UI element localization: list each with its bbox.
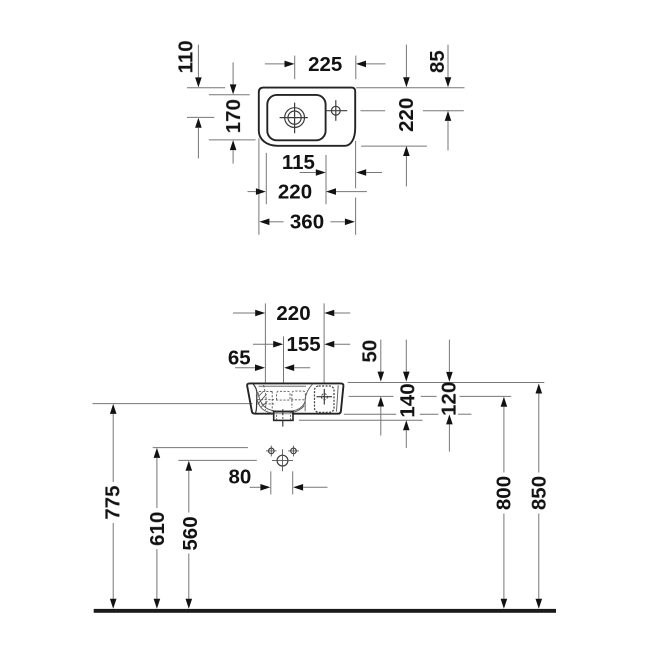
drain crosshair (plan view) bbox=[280, 103, 308, 134]
svg-text:80: 80 bbox=[228, 466, 251, 489]
left fixing hole circle bbox=[269, 448, 275, 454]
hatched cut section box at left rim (elevation) bbox=[257, 391, 274, 411]
extension line: right fixing hole vertical, below bbox=[292, 471, 294, 494]
svg-text:360: 360 bbox=[290, 210, 324, 233]
extension line: top edge level, right of basin bbox=[356, 87, 464, 89]
drain inner circle (plan view) bbox=[288, 111, 301, 124]
bottom edge gap at drain outlet bbox=[275, 413, 293, 415]
svg-text:560: 560 bbox=[179, 516, 202, 550]
dimension 85 (top edge to tap hole centre), vertical at right bbox=[426, 45, 451, 151]
dimension 225 (drain centre to right edge), horizontal at top bbox=[265, 53, 386, 76]
bowl outer curve (elevation) bbox=[256, 395, 304, 413]
level line: tap deck centre (800/50), to the right bbox=[349, 395, 512, 397]
drain pipe crosshair bbox=[272, 449, 293, 471]
tap hole circle (plan view) bbox=[331, 106, 340, 115]
svg-text:170: 170 bbox=[222, 99, 245, 133]
level line: basin top edge (850), to the right bbox=[348, 382, 545, 384]
svg-text:220: 220 bbox=[276, 302, 310, 325]
extension line: 155 left reference, above elevation bbox=[283, 336, 285, 383]
tap hole crosshair (elevation) bbox=[317, 389, 333, 405]
dimension 155 (bowl reference), horizontal above elevation bbox=[253, 333, 350, 356]
dimension 50 (top edge to tap centre), vertical bbox=[358, 340, 384, 436]
svg-text:140: 140 bbox=[396, 383, 419, 417]
hatch diagonal lines (elevation section) bbox=[258, 392, 268, 407]
dimension 560 (floor to drain pipe), vertical bbox=[179, 461, 202, 609]
basin outer outline (plan view) bbox=[259, 88, 355, 146]
svg-text:775: 775 bbox=[101, 485, 124, 519]
inner bowl outline (plan view) bbox=[267, 95, 325, 140]
left rim inner profile curve (elevation) bbox=[253, 384, 257, 413]
drain outlet box (elevation) bbox=[274, 411, 293, 420]
dimension 610 (floor to fixing holes), vertical bbox=[146, 448, 169, 609]
dimension 360 (basin width), horizontal below plan bbox=[259, 210, 355, 233]
dimension 170 (inner bowl depth), vertical at left bbox=[222, 62, 245, 163]
svg-text:85: 85 bbox=[426, 50, 449, 73]
dimension 80 (fixing hole spacing), horizontal bbox=[228, 466, 327, 491]
extension line: left fixing hole vertical, below bbox=[270, 471, 272, 494]
dimension 850 (floor to basin top edge), vertical bbox=[528, 384, 551, 609]
bowl inner curve (elevation) bbox=[258, 392, 305, 411]
svg-text:120: 120 bbox=[438, 382, 461, 416]
hidden bowl left wall dashed line (elevation) bbox=[264, 385, 267, 410]
right fixing hole crosshair bbox=[288, 446, 299, 457]
extension line: tap hole centre level, right of basin bbox=[361, 110, 464, 112]
dimension 220 (inner bowl width), horizontal above elevation bbox=[233, 302, 350, 325]
extension line: inner bowl left vertical, below basin bbox=[265, 153, 267, 204]
level line: basin bottom edge (120), to the right bbox=[344, 413, 472, 415]
svg-text:610: 610 bbox=[146, 512, 169, 546]
deck front edge curve (elevation) bbox=[305, 384, 313, 411]
left fixing hole crosshair bbox=[266, 446, 277, 457]
svg-text:110: 110 bbox=[174, 40, 197, 73]
right inner slant line (elevation) bbox=[337, 385, 339, 411]
floor line bbox=[94, 609, 556, 613]
extension line: top edge level, left of basin bbox=[187, 87, 225, 89]
svg-text:225: 225 bbox=[308, 53, 342, 76]
dimension 65, horizontal above elevation left bbox=[228, 347, 310, 372]
svg-text:220: 220 bbox=[395, 98, 418, 132]
rectangle B side continuation dashes (elevation) bbox=[291, 400, 293, 408]
svg-text:800: 800 bbox=[493, 476, 516, 510]
dimension 120 (top edge to basin bottom), vertical bbox=[438, 340, 461, 452]
dimension 140 (top edge to drain outlet bottom), vertical bbox=[396, 340, 419, 448]
level line: drain pipe height (560), to the left bbox=[178, 459, 256, 461]
svg-text:220: 220 bbox=[278, 180, 312, 203]
drain outlet inner walls (elevation) bbox=[277, 412, 291, 420]
right fixing hole circle bbox=[291, 448, 297, 454]
svg-text:115: 115 bbox=[282, 151, 315, 174]
level line: 775 height (basin lower edge), to the left bbox=[93, 403, 253, 405]
drain outer circle (plan view) bbox=[285, 108, 305, 128]
dimension 800 (floor to tap deck), vertical bbox=[493, 397, 516, 609]
extension line: inner bowl right vertical, below basin bbox=[325, 155, 327, 204]
extension line: inner bowl right wall, above elevation bbox=[323, 303, 325, 383]
level line: fixing holes height (610), to the left bbox=[153, 447, 248, 449]
drain pipe circle bbox=[277, 455, 288, 466]
extension line: drain centre vertical, above basin bbox=[294, 56, 296, 80]
dimension 220 (basin depth), vertical at right of plan bbox=[395, 45, 418, 187]
dimension 220 (inner bowl width), horizontal below plan bbox=[248, 180, 367, 203]
svg-text:65: 65 bbox=[228, 347, 251, 370]
svg-text:50: 50 bbox=[358, 340, 381, 363]
basin outer outline (elevation) bbox=[247, 383, 343, 413]
tap hole crosshair (plan view) bbox=[326, 100, 347, 121]
drain outlet centreline (elevation) bbox=[282, 409, 284, 426]
extension line: inner bowl bottom level, left of basin bbox=[209, 139, 256, 141]
extension line: inner bowl top level, left of basin bbox=[209, 94, 250, 96]
extension line: inner bowl left wall, above elevation bbox=[264, 303, 266, 383]
level line: drain outlet bottom (140), to the right bbox=[299, 419, 423, 421]
dimension 110 (top edge to drain centre), vertical at left bbox=[174, 40, 201, 158]
dimension 775 (floor to basin lower edge), vertical bbox=[101, 404, 124, 609]
tap hole dashed circle (elevation) bbox=[321, 394, 327, 400]
dimension 115 (inner bowl right to basin right), horizontal below plan bbox=[282, 151, 382, 176]
overflow recess rectangle A (elevation) bbox=[277, 391, 290, 400]
extension line: basin left edge vertical, below basin bbox=[258, 139, 260, 235]
tap platform dashed outline (elevation) bbox=[315, 386, 335, 412]
rear rim top line (elevation) bbox=[259, 385, 306, 387]
rear shelf rectangle B (elevation) bbox=[292, 391, 305, 400]
svg-text:155: 155 bbox=[286, 333, 320, 356]
extension line: basin right edge vertical, above basin bbox=[355, 56, 357, 80]
extension line: basin right edge vertical, below basin bbox=[355, 141, 357, 235]
extension line: drain centre level, left of basin bbox=[187, 116, 214, 118]
extension line: basin bottom level, right of basin bbox=[361, 145, 427, 147]
svg-text:850: 850 bbox=[528, 476, 551, 510]
